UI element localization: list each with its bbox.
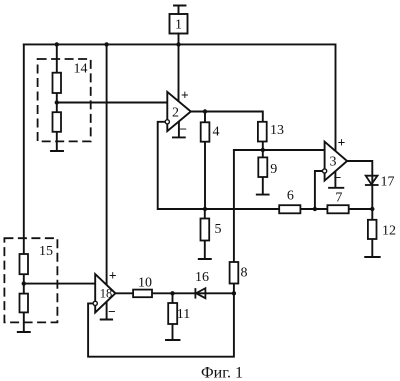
svg-text:+: + (181, 88, 189, 103)
svg-text:16: 16 (195, 270, 209, 285)
svg-text:−: − (334, 170, 342, 185)
svg-text:7: 7 (335, 191, 342, 206)
svg-text:1: 1 (175, 18, 182, 33)
svg-text:−: − (179, 122, 187, 137)
svg-text:10: 10 (138, 276, 152, 291)
svg-text:8: 8 (241, 266, 248, 281)
svg-text:+: + (109, 268, 117, 283)
svg-text:5: 5 (215, 222, 222, 237)
svg-text:4: 4 (213, 125, 220, 140)
svg-text:11: 11 (177, 307, 190, 322)
svg-text:2: 2 (172, 106, 179, 121)
svg-text:13: 13 (270, 123, 284, 138)
svg-text:17: 17 (381, 175, 395, 190)
svg-text:+: + (338, 135, 346, 150)
svg-text:14: 14 (74, 62, 88, 77)
svg-text:6: 6 (287, 189, 294, 204)
svg-text:−: − (108, 304, 116, 319)
svg-text:12: 12 (382, 224, 396, 239)
svg-text:9: 9 (270, 162, 277, 177)
svg-text:Фиг. 1: Фиг. 1 (201, 365, 243, 381)
svg-text:3: 3 (330, 155, 337, 170)
svg-text:15: 15 (39, 244, 53, 259)
svg-text:18: 18 (100, 287, 113, 301)
